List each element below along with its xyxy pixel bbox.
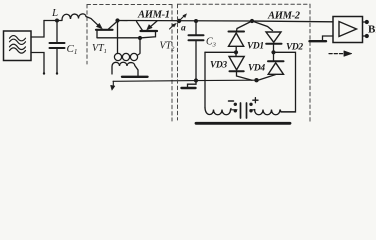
wire secondary to bridge bottom	[113, 80, 257, 81]
amplifier A1 box	[333, 17, 363, 43]
node bridge bottom vertex	[254, 78, 258, 82]
svg-text:VD2: VD2	[286, 43, 303, 53]
svg-text:a: a	[181, 24, 186, 34]
inductor lower-right winding	[255, 110, 296, 115]
transistor VT2	[137, 21, 158, 38]
wire vertex to VD1	[237, 21, 253, 31]
amplifier ground wire	[323, 36, 334, 40]
svg-text:VD4: VD4	[248, 64, 265, 74]
dashed box AIM-2	[178, 4, 311, 122]
wire left tap to lower coil	[204, 52, 206, 107]
dashed box AIM-1	[87, 5, 172, 122]
transformer T2 core bar	[196, 122, 290, 125]
node a	[177, 19, 181, 23]
wire source top terminal to rail	[31, 21, 44, 38]
battery GB plates	[240, 103, 242, 118]
transformer T1 primary loops	[114, 53, 121, 60]
node C5 bottom junction	[194, 78, 198, 82]
wire hook with arrow end	[112, 81, 114, 85]
wire left tap	[205, 51, 236, 53]
capacitor C5	[195, 21, 197, 35]
node L/C1 junction	[55, 19, 59, 23]
capacitor C1	[56, 21, 58, 43]
label plus	[253, 98, 258, 103]
AC source G1 box	[4, 31, 32, 61]
amplifier output stubs	[363, 22, 367, 36]
svg-text:C3: C3	[206, 37, 217, 49]
transformer T1 primary hangers	[117, 21, 119, 54]
arrow at node a lower	[170, 26, 173, 29]
svg-text:VT1: VT1	[92, 43, 107, 55]
wire rail left segment	[44, 20, 62, 22]
wire right tap	[274, 52, 296, 112]
diode VD2	[266, 32, 281, 42]
arrow at node a upper	[180, 16, 184, 20]
inductor L coil	[62, 14, 86, 20]
wire end blob	[43, 72, 45, 74]
svg-text:Вых: Вых	[368, 24, 376, 36]
svg-text:VD3: VD3	[210, 61, 227, 71]
wire source bottom terminal down	[31, 53, 44, 74]
wire base line	[97, 37, 140, 39]
node bridge right tap	[271, 50, 275, 54]
output terminal top	[365, 20, 369, 24]
inductor lower-left winding	[205, 108, 231, 115]
svg-text:L: L	[51, 7, 58, 19]
wire rail main segment	[118, 21, 334, 22]
wire vertex to VD2	[252, 21, 273, 31]
label minus	[229, 100, 234, 102]
wire battery to right coil	[250, 109, 255, 111]
node rail/VT1 collector	[115, 18, 119, 22]
amplifier triangle	[339, 22, 357, 37]
svg-text:VT2: VT2	[160, 41, 176, 53]
AC source sine symbol	[10, 36, 26, 54]
svg-text:C1: C1	[67, 43, 78, 56]
battery GB polarity dots	[234, 103, 237, 106]
node bridge top vertex	[250, 19, 254, 23]
svg-text:АИМ-2: АИМ-2	[267, 11, 301, 22]
transformer T1 core bar	[122, 76, 148, 78]
node bridge left tap	[234, 50, 238, 54]
diode VD3	[235, 53, 237, 56]
signal direction arrow	[329, 53, 344, 55]
svg-text:VD1: VD1	[247, 42, 264, 52]
transistor VT1	[86, 17, 117, 38]
svg-text:АИМ-1: АИМ-1	[137, 10, 170, 21]
node C5 junction	[194, 19, 198, 23]
ground at amplifier	[310, 40, 327, 42]
wire coil to battery	[231, 109, 237, 111]
diode VD1	[229, 31, 245, 33]
node base line / winding	[138, 36, 142, 40]
transformer T1 secondary winding	[112, 62, 138, 75]
output terminal bottom	[365, 34, 369, 38]
ground at C5	[188, 81, 197, 88]
diode VD4	[273, 53, 275, 61]
